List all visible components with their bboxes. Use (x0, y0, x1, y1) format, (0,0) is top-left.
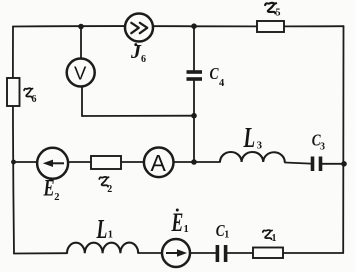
svg-text:3: 3 (320, 142, 325, 153)
svg-text:1: 1 (272, 233, 277, 244)
voltmeter V (67, 59, 95, 87)
svg-text:1: 1 (108, 230, 113, 241)
wire C4 branch (193, 26, 195, 162)
svg-text:L: L (243, 124, 255, 154)
svg-text:V: V (74, 63, 87, 84)
svg-text:6: 6 (32, 94, 37, 105)
wire V branch (81, 27, 194, 117)
node right-middle (341, 161, 347, 167)
svg-text:C: C (210, 66, 220, 83)
svg-text:A: A (151, 150, 167, 176)
svg-text:6: 6 (141, 54, 146, 65)
svg-text:1: 1 (184, 224, 189, 235)
wire top (13, 25, 344, 27)
svg-text:1: 1 (224, 230, 229, 241)
node top-C4 (191, 23, 197, 29)
resistor z2 (91, 156, 121, 195)
wire middle (13, 162, 344, 164)
resistor z5 (257, 3, 284, 32)
capacitor C3 (312, 131, 325, 171)
node top-V (78, 24, 84, 30)
capacitor C1 (216, 221, 230, 262)
resistor z6 (7, 78, 37, 106)
resistor z1 (253, 230, 283, 258)
svg-text:L: L (96, 214, 108, 244)
inductor L3 (220, 124, 285, 163)
node middle-C4 (191, 159, 197, 165)
wire bottom (14, 252, 343, 255)
svg-text:5: 5 (276, 8, 281, 19)
wire right (342, 26, 344, 253)
svg-text:E: E (43, 176, 55, 201)
source J6 (125, 14, 153, 66)
svg-text:E: E (171, 208, 184, 237)
svg-text:2: 2 (107, 184, 112, 195)
node V-C4 (191, 113, 197, 119)
svg-text:4: 4 (219, 78, 225, 89)
source E1 (162, 208, 190, 267)
svg-text:3: 3 (257, 140, 262, 151)
capacitor C4 (187, 66, 226, 89)
source E2 (37, 148, 68, 203)
ammeter A (144, 148, 174, 178)
inductor L1 (67, 214, 138, 253)
node left-middle (11, 160, 16, 165)
wire left (13, 27, 14, 254)
svg-text:2: 2 (54, 192, 59, 203)
